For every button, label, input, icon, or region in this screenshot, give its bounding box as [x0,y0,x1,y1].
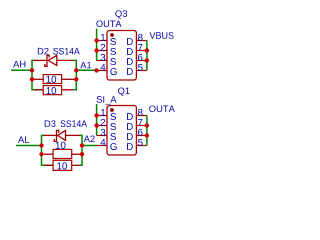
pin number 5 [138,64,143,71]
net label SI_A [97,96,117,104]
wire stub R-top right [74,78,76,80]
pin 4 stub [97,145,107,147]
pin name S [110,48,116,55]
designator D3 value SS14A [61,120,88,127]
wire VBUS rail [146,41,148,71]
wire A2 to Q1 pin 4 [82,145,97,147]
resistor 10 (top) [53,149,72,158]
pin name S [110,123,116,130]
net label AH [13,61,25,67]
resistor R-top right lead [72,153,80,155]
junction A2 node [80,143,84,147]
resistor 10 (bottom) [43,86,61,95]
net label A1 [80,62,91,68]
value 10 [47,76,57,83]
pin 3 stub [97,60,107,62]
resistor 10 (bottom) [53,160,72,170]
junction AH node [30,68,34,72]
body Q1 box [107,106,136,156]
pin name D [127,123,133,130]
net label AL [18,136,29,142]
pin name D [127,58,133,65]
pin name S [110,113,116,120]
pin number 7 [138,44,142,51]
wire AH [11,69,32,71]
pin 8 stub [136,40,147,42]
wire left rail down [42,146,54,166]
pin 5 stub [136,145,147,147]
designator D3 [45,120,56,127]
pin number 4 [100,64,105,71]
pin number 2 [101,119,105,126]
pin 3 stub [97,135,107,137]
diode D2 (Schottky SS14A) [34,55,73,66]
lead to resistor R-top left [34,78,43,80]
junction pin7 [145,48,149,52]
junction AL node [39,143,43,147]
net label OUTA [96,20,121,27]
pin 6 stub [136,135,147,137]
pin name G [110,143,116,150]
wire right elbow down from diode D2 [73,60,76,70]
pin number 2 [101,44,105,51]
pin number 4 [100,139,105,146]
pin 4 stub [97,70,107,72]
pin name D [127,48,133,55]
pin name D [127,133,133,140]
diode D3 (Schottky SS14A) [44,130,81,141]
resistor R-bottom right lead [72,164,80,166]
pin 2 stub [97,125,107,127]
wire left elbow up to diode D2 [32,60,35,70]
junction at Q3 pin 4 [94,68,98,72]
pin 5 stub [136,70,147,72]
junction pin6 [145,133,149,137]
resistor 10 (top) [43,75,61,84]
value 10 [47,87,57,94]
pin name G [110,68,116,75]
junction pin6 [145,58,149,62]
pin name D [127,38,133,45]
value 10 (above resistor) [56,142,66,149]
pin number 3 [101,129,106,136]
pin number 6 [138,54,143,61]
wire left rail down [32,70,43,90]
pin number 7 [138,119,142,126]
junction left at resistor R-top [30,77,34,81]
designator D2 [38,48,49,55]
pin number 5 [138,139,143,146]
junction pin1 [94,113,98,117]
lead R-bottom left (bottom block) [44,164,53,166]
pin 2 stub [97,50,107,52]
resistor R-bottom right lead [62,89,74,91]
body Q3 box [107,31,136,81]
lead to resistor R-top [44,153,53,155]
pin 6 stub [136,60,147,62]
wire right rail down [80,146,83,166]
net label A2 [84,135,95,142]
wire AL [16,145,42,147]
wire A1 to Q3 pin 4 [76,69,96,71]
junction pin2 [94,123,98,127]
pin 1 stub [97,115,107,117]
pin 1 stub [97,40,107,42]
wire stub R-top right [80,153,83,155]
pin name S [110,58,116,65]
wire right rail down [74,70,76,90]
pin name S [110,133,116,140]
net label VBUS [150,32,174,39]
wire right elbow down from diode D3 [80,135,82,145]
junction left at resistor R-top [39,152,43,156]
pin number 1 [101,34,105,41]
junction pin2 [94,48,98,52]
pin name S [110,38,116,45]
designator D2 value SS14A [53,48,80,55]
pin number 8 [138,34,143,41]
pin 8 stub [136,115,147,117]
net label OUTA [149,105,175,112]
pin name D [127,143,133,150]
junction pin1 [94,38,98,42]
resistor R-top right lead [62,78,74,80]
pin name D [127,68,133,75]
pin number 8 [138,109,143,116]
pin-1 marker dot [110,108,114,112]
junction right at resistor R-top [74,77,78,81]
pin name D [127,113,133,120]
pin 7 stub [136,125,147,127]
designator Q3 [115,10,127,18]
wire SI_A rail pins 1-3 [96,104,98,136]
pin-1 marker dot [110,33,114,37]
designator Q1 [118,88,130,96]
pin number 6 [138,129,143,136]
pin number 3 [101,54,106,61]
lead R-bottom left [34,89,43,91]
junction A1 node [74,68,78,72]
junction pin7 [145,123,149,127]
wire OUTA rail [146,116,148,146]
pin number 1 [101,109,105,116]
junction right at resistor R-top [80,152,84,156]
value 10 [57,162,67,169]
wire OUTA rail pins 1-3 [96,29,98,61]
pin 7 stub [136,50,147,52]
wire left elbow up to diode D3 [42,135,45,145]
